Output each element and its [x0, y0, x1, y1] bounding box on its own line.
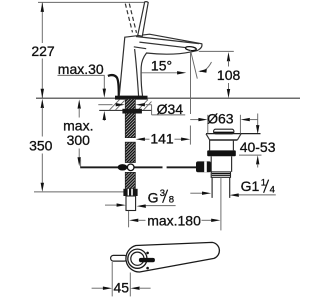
svg-text:Ø63: Ø63	[207, 111, 234, 127]
svg-text:Ø34: Ø34	[157, 101, 184, 117]
svg-text:350: 350	[29, 138, 53, 154]
svg-text:8: 8	[169, 195, 174, 206]
svg-text:45: 45	[114, 280, 130, 296]
svg-text:max.180: max.180	[147, 213, 201, 229]
svg-text:4: 4	[270, 185, 275, 196]
svg-text:300: 300	[67, 132, 91, 148]
svg-text:max.30: max.30	[58, 61, 104, 77]
svg-text:15°: 15°	[151, 57, 172, 73]
svg-text:40-53: 40-53	[240, 139, 276, 155]
svg-text:G: G	[148, 189, 159, 205]
svg-text:227: 227	[31, 43, 55, 59]
svg-text:108: 108	[217, 67, 241, 83]
svg-text:G1: G1	[241, 178, 260, 194]
svg-text:141: 141	[150, 130, 174, 146]
